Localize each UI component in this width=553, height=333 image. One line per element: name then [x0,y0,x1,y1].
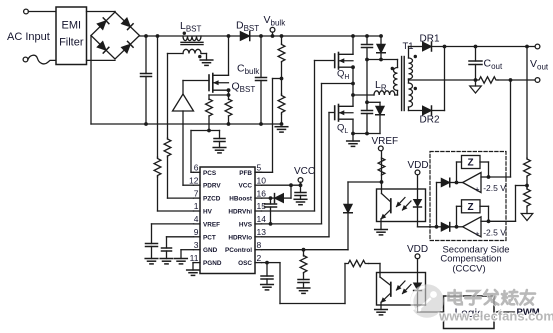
capacitor Cbulk [237,34,267,126]
wire HDRVhi [262,61,335,212]
capacitor PCS filter [214,131,225,148]
svg-text:8: 8 [257,240,262,250]
wire opto2 LED cathode [418,291,444,313]
resistor Vout divider upper [524,158,531,187]
wire Z feedback lower [457,206,489,227]
diode OR lower [437,223,463,232]
amplifier driver triangle [173,81,210,112]
node T1 primary phase dot [391,67,394,70]
capacitor PCT pin [162,237,194,259]
EMI filter block [56,7,87,65]
svg-text:DR2: DR2 [420,115,440,126]
transformer T1 core [402,57,405,111]
ground OSC cap [261,285,274,290]
impedance Z upper [462,156,481,169]
transistor QL [335,105,353,122]
svg-text:13: 13 [257,227,267,237]
label Secondary Side [442,244,509,255]
wire OSC link [267,263,345,304]
wire QBST drain [227,34,231,75]
resistor HV sense [154,157,161,177]
ground VREF cap [145,259,158,264]
ground PCT cap [160,259,173,264]
inductor LBST core [181,42,203,44]
label LBST [180,20,202,34]
resistor VREF pullup [378,151,385,182]
optocoupler U2 box [377,189,426,222]
capacitor input filter [141,34,152,126]
label CCCV [452,263,485,274]
svg-text:VCC: VCC [239,183,253,190]
svg-text:5: 5 [257,163,262,173]
wire opto1 light arrows [397,198,412,211]
label -2.5V upper [483,183,506,193]
wire IC pin stubs [194,172,262,262]
svg-text:Z: Z [467,202,473,213]
label T1 [403,41,414,52]
wire switch node [351,65,355,106]
resistor shunt [477,77,498,83]
resistor PZCD [164,138,171,157]
ground PGND pin [187,263,200,276]
label QBST [232,81,256,95]
diode opto2 LED [414,259,422,291]
wire aux to ground [201,54,207,61]
diode bridge D3 (left-bottom) [97,41,109,53]
svg-text:2: 2 [257,253,262,263]
ground QL source [347,141,360,146]
label QH [337,69,349,82]
wire PWM input arrow [497,307,540,318]
diode PControl feedback [344,182,353,250]
label IC pin numbers [189,163,266,263]
svg-text:VREF: VREF [203,221,220,228]
op-amp CC upper [463,173,491,195]
capacitor resonant lower [362,60,373,136]
diode DR1 [409,34,440,52]
wire DR2 riser [444,47,446,111]
wire PCS node [191,129,220,173]
svg-text:PDRV: PDRV [203,183,221,190]
svg-text:7: 7 [194,188,199,198]
wire opto1 node [348,180,383,184]
resistor Vout divider lower [524,186,531,214]
node VREF terminal [372,136,399,151]
ground Vout divider [521,214,533,221]
resistor sense left [206,95,213,131]
wire PDRV [183,111,194,185]
svg-text:EMI: EMI [62,20,82,32]
svg-text:-2.5 V: -2.5 V [483,227,506,237]
wire QH drain [351,34,355,54]
capacitor VCC [295,185,306,199]
optocoupler U3 box [377,273,426,306]
diode bridge D1 (left-top) [97,18,109,30]
capacitor bootstrap [265,198,277,226]
svg-text:15: 15 [257,201,267,211]
diode bootstrap [262,185,292,202]
wire OR bus [435,183,439,229]
diode opto1 LED [414,175,422,207]
ground PControl [297,288,310,293]
svg-text:1: 1 [194,201,199,211]
resistor opto2 collector [345,260,380,272]
ground opto2 emitter [375,310,388,315]
svg-text:Z: Z [467,158,473,169]
ground output [470,80,482,93]
svg-text:9: 9 [194,227,199,237]
svg-text:4: 4 [194,214,199,224]
transistor opto1 photo [381,194,391,230]
ground opto1 emitter [375,230,388,235]
svg-text:OSC: OSC [238,260,252,267]
resistor bulk divider upper [278,34,285,78]
wire center tap [409,79,476,83]
svg-text:PZCD: PZCD [203,196,221,203]
svg-text:(CCCV): (CCCV) [452,263,485,274]
node LBST phase dot [183,32,186,35]
capacitor PControl [298,280,309,289]
node VDD terminal upper [408,160,429,175]
wire QL source [351,119,380,141]
diode DBST [236,20,259,41]
wire PZCD sense [168,54,194,199]
svg-text:14: 14 [257,214,267,224]
node LBST aux phase dot [198,55,201,58]
transistor QH [335,53,353,70]
wire output return [498,78,537,82]
svg-text:PCS: PCS [203,170,217,177]
diode DR2 [409,106,445,126]
wire HDRVlo [262,113,335,237]
logic block [444,296,495,329]
AC Input label [7,31,50,43]
wire HVS [262,82,355,224]
node VDD terminal lower [407,244,428,259]
svg-text:3: 3 [194,240,199,250]
node VCC terminal [294,166,315,185]
ground bus end [275,127,288,132]
svg-text:HDRVlo: HDRVlo [228,234,252,241]
svg-text:VCC: VCC [294,166,315,177]
capacitor OSC [261,261,273,285]
op-amp CV lower [463,217,491,239]
wire QBST source [209,88,230,97]
node AC neutral terminal [23,57,28,62]
svg-text:+: + [475,229,480,239]
svg-text:11: 11 [190,253,199,263]
svg-text:GND: GND [203,247,218,254]
wire opto1 LED cathode [418,207,437,227]
capacitor VREF pin [146,224,194,259]
watermark logo [410,284,553,323]
wire Z feedback upper [457,162,489,183]
wire output positive [432,45,538,49]
secondary compensation dashed box [430,152,506,241]
svg-text:VREF: VREF [372,136,399,147]
wire primary ground bus [91,123,282,125]
svg-text:AC Input: AC Input [7,31,50,43]
diode bridge D2 (top-right) [121,18,133,30]
node Vbulk terminal [264,14,287,38]
svg-text:+: + [475,184,480,194]
wire bridge negative down [90,36,92,125]
resistor sense right [225,95,232,126]
wire current sense [489,80,511,177]
node Vout terminals [530,44,549,82]
wire HV sense [158,36,194,211]
bridge rectifier outline [91,12,140,59]
diode OR upper [437,178,463,187]
wire fuse squiggle [28,55,56,64]
svg-text:DR1: DR1 [420,34,440,45]
inductor LBST aux winding [183,49,201,53]
svg-text:12: 12 [189,175,199,185]
impedance Z lower [462,200,481,213]
transistor opto2 photo [380,273,391,310]
wire PControl [262,248,349,252]
diode clamp upper [377,34,386,59]
wire EMI to bridge bottom [87,59,116,61]
svg-text:PGND: PGND [203,260,222,267]
svg-text:PControl: PControl [225,247,252,254]
svg-text:www.elecfans.com: www.elecfans.com [438,309,553,324]
ground aux winding [200,60,213,65]
wire PFB feedback [255,79,282,173]
capacitor Cout [469,47,503,82]
wire opto1 collector [381,182,383,194]
diode bridge D4 (bottom-right) [121,41,133,53]
transistor QBST [209,74,229,93]
capacitor resonant upper [362,34,373,59]
transformer T1 secondary upper [409,47,413,80]
node T1 secondary phase dots [414,55,417,90]
wire VCC line [262,183,303,187]
diode clamp lower [367,102,384,133]
resistor PControl [300,250,307,280]
svg-text:HV: HV [203,209,213,216]
op-amp controller IC box [200,167,255,274]
wire voltage sense [489,47,528,222]
wire opto2 light arrows [397,281,412,294]
svg-text:VDD: VDD [408,160,429,171]
svg-text:10: 10 [257,175,267,185]
resistor bulk divider lower [278,77,285,126]
transformer T1 secondary lower [409,83,413,111]
ground GND pin [175,250,194,264]
ground PCS cap [213,148,226,153]
label Compensation [440,253,501,264]
wire DC rail [140,35,383,37]
svg-text:HBoost: HBoost [229,196,253,203]
transformer T1 primary [394,60,398,96]
svg-text:PCT: PCT [203,234,216,241]
label QL [337,123,348,136]
wire resonant node [365,58,397,62]
svg-text:6: 6 [194,163,199,173]
node AC line terminal top [24,9,56,14]
inductor LR [353,79,398,95]
inductor LBST primary [156,34,201,41]
svg-text:PFB: PFB [239,170,252,177]
label -2.5V lower [483,227,506,237]
svg-text:-2.5 V: -2.5 V [483,183,506,193]
svg-text:VDD: VDD [407,244,428,255]
svg-text:HDRVhi: HDRVhi [228,209,252,216]
svg-text:16: 16 [257,188,267,198]
svg-text:Filter: Filter [59,37,84,49]
svg-text:HVS: HVS [239,221,253,228]
wire EMI to bridge top [87,11,116,14]
label IC pin names [203,170,253,267]
ground VCC cap [294,199,307,204]
